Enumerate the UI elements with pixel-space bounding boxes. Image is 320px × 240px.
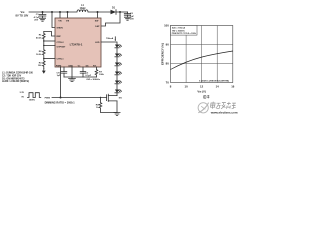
svg-text:DIMMING RATIO = 3000:1: DIMMING RATIO = 3000:1 xyxy=(45,101,76,104)
svg-text:25V: 25V xyxy=(34,20,38,22)
wire SHDN feed xyxy=(52,12,55,28)
diode D1 xyxy=(111,6,117,14)
conditions box xyxy=(171,26,198,36)
svg-text:LED: LED xyxy=(95,42,100,44)
svg-text:VIN (V): VIN (V) xyxy=(197,90,206,94)
wire VIN pin stub 2 xyxy=(67,12,69,18)
capacitor C2 xyxy=(124,12,134,20)
capacitor CSS xyxy=(80,67,92,77)
ground C1 xyxy=(39,18,45,21)
svg-text:100k: 100k xyxy=(99,74,105,76)
node SHDN junction xyxy=(51,11,53,13)
ground IC xyxy=(69,79,76,82)
svg-text:80: 80 xyxy=(166,62,170,66)
LED D3 xyxy=(115,54,122,63)
wire GND pin stub xyxy=(71,67,73,79)
svg-text:100: 100 xyxy=(164,24,169,28)
resistor R1 xyxy=(36,32,45,42)
svg-text:0.1µF: 0.1µF xyxy=(85,75,91,77)
svg-text:3.3V: 3.3V xyxy=(20,92,25,94)
inductor L1 xyxy=(77,4,88,12)
svg-text:70: 70 xyxy=(166,81,170,85)
svg-text:40.2k: 40.2k xyxy=(36,36,42,39)
svg-text:CTRL2: CTRL2 xyxy=(57,42,65,44)
resistor RT xyxy=(95,67,104,77)
node 700mA label xyxy=(106,37,116,41)
LED D2 xyxy=(115,45,122,54)
resistor R3 xyxy=(38,59,45,69)
wire VIN rail xyxy=(29,11,77,13)
svg-text:12: 12 xyxy=(200,84,204,88)
chart efficiency graph xyxy=(161,24,235,94)
wire comp bus xyxy=(64,76,97,78)
LED D7 xyxy=(115,90,122,96)
svg-text:www.elecfans.com: www.elecfans.com xyxy=(210,111,238,115)
wire rail L1 to diode xyxy=(88,11,111,13)
node output junction xyxy=(119,11,121,13)
svg-text:OVPSET: OVPSET xyxy=(57,46,67,48)
ground C2 xyxy=(124,17,130,20)
watermark caption marks xyxy=(204,95,210,98)
ground divider xyxy=(43,69,45,71)
watermark logo xyxy=(198,103,209,113)
curve efficiency xyxy=(171,51,233,70)
transistor M1 NMOS xyxy=(107,94,123,101)
wire output to CAP pin xyxy=(101,12,120,26)
capacitor CVC xyxy=(56,67,66,77)
svg-text:1µF: 1µF xyxy=(57,75,61,77)
svg-text:14: 14 xyxy=(216,84,220,88)
svg-text:PWM DUTY CYCLE = 100%: PWM DUTY CYCLE = 100% xyxy=(172,33,197,35)
wire PWM line xyxy=(52,97,107,99)
svg-text:16: 16 xyxy=(231,84,235,88)
wire diode to C2 xyxy=(116,11,128,13)
wire CTRL1 tap xyxy=(44,58,55,60)
wire M1 source to ground xyxy=(116,101,118,113)
svg-text:LEDS: LUXEON (WHITE): LEDS: LUXEON (WHITE) xyxy=(2,81,29,83)
svg-text:PWM: PWM xyxy=(45,97,51,99)
wire REF to divider jog xyxy=(44,32,55,37)
grid box xyxy=(171,26,233,83)
svg-text:8V TO 18V: 8V TO 18V xyxy=(16,14,29,18)
wire PWM pin stub xyxy=(60,67,62,98)
resistor R2 xyxy=(36,46,45,59)
op-amp U1 LT3478-1 IC body xyxy=(55,18,101,67)
svg-text:CAP: CAP xyxy=(95,25,100,28)
svg-text:GND: GND xyxy=(68,65,73,67)
svg-text:EFFICIENCY (%): EFFICIENCY (%) xyxy=(161,43,165,65)
resistor R4 gate pulldown xyxy=(96,97,117,113)
svg-text:CTRL1: CTRL1 xyxy=(57,59,65,61)
LED D5 xyxy=(115,72,122,81)
svg-text:LT3478-1: LT3478-1 xyxy=(70,42,83,46)
node C1 junction xyxy=(42,11,44,13)
svg-text:90: 90 xyxy=(166,43,170,47)
svg-text:REF: REF xyxy=(57,36,62,38)
wire SW pin stub xyxy=(97,12,99,18)
svg-text:C2: TDK X5R 25V: C2: TDK X5R 25V xyxy=(2,76,22,78)
node VIN input label xyxy=(16,10,29,18)
capacitor C1 xyxy=(34,12,46,22)
svg-text:16.9k: 16.9k xyxy=(36,54,42,56)
svg-text:100Hz: 100Hz xyxy=(29,99,36,101)
node PWM source waveform xyxy=(20,92,41,102)
svg-text:SHDN: SHDN xyxy=(57,28,64,30)
svg-text:D1: ON MBRM140T3: D1: ON MBRM140T3 xyxy=(2,77,25,80)
svg-text:700mA: 700mA xyxy=(106,37,114,40)
LED D4 xyxy=(115,63,122,72)
watermark chinese glyphs xyxy=(210,102,236,109)
wire LED pin to LED string xyxy=(101,42,117,45)
svg-text:10: 10 xyxy=(185,84,189,88)
svg-text:6 LEDS LUXEON K2 (WHITE): 6 LEDS LUXEON K2 (WHITE) xyxy=(199,81,229,83)
svg-text:fSW = 300kHz: fSW = 300kHz xyxy=(87,79,101,81)
ground M1 xyxy=(114,113,120,116)
wire VIN pin stub 1 xyxy=(59,12,61,18)
wire CTRL2 tap xyxy=(44,40,55,42)
LED D6 xyxy=(115,81,122,90)
svg-text:10µH: 10µH xyxy=(80,7,86,10)
node component notes xyxy=(2,72,34,83)
svg-text:L1: SUMIDA CDRH104R-100: L1: SUMIDA CDRH104R-100 xyxy=(2,72,34,75)
svg-text:25V: 25V xyxy=(130,18,134,20)
wire OVPSET tap xyxy=(44,41,55,46)
